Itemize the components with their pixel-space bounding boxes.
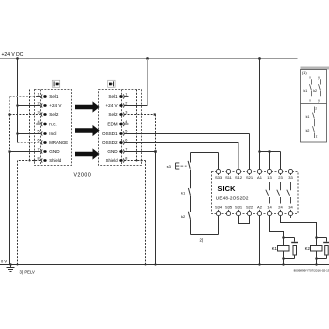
relay contact 13-14 — [266, 182, 270, 204]
arrow 2 — [75, 125, 100, 136]
wire 24 to K2 — [281, 216, 317, 238]
wire X2 pin2 riser gray — [147, 59, 149, 106]
junction rail-X1 — [16, 57, 19, 60]
legend header bar — [301, 67, 329, 70]
legend contact k1 NO — [304, 76, 312, 103]
wire OSSD2 riser gray — [238, 143, 240, 170]
junction shield screen b — [34, 160, 36, 162]
wire to X1 pin6 dashed gray — [18, 142, 41, 144]
coil K1 — [272, 238, 289, 259]
arrow 3 — [75, 148, 100, 159]
wire K1 to 0V — [283, 259, 285, 265]
connector X2 pin 2 +24 V — [105, 102, 127, 109]
junction shield screen a — [29, 160, 31, 162]
svg-text:S31: S31 — [235, 205, 243, 210]
connector X1 pin 6 MRANGE — [37, 139, 68, 146]
svg-text:5: 5 — [125, 130, 127, 134]
connector X1 pin 5 Incl — [37, 130, 56, 137]
wire to X1 pin3 dashed — [10, 114, 41, 116]
junction 0V at x145.5 — [145, 264, 147, 266]
svg-text:K2: K2 — [305, 246, 311, 251]
connector X1 plug icon — [52, 80, 59, 87]
wire reset loop top — [191, 152, 219, 154]
svg-text:OSSD1: OSSD1 — [102, 131, 118, 136]
relay terminal S34 — [215, 205, 223, 216]
wire A1 from rail — [259, 59, 261, 170]
wire Sel2 drop dashed — [155, 115, 157, 152]
relay terminal 34 — [288, 205, 293, 216]
arrow 1 — [75, 101, 100, 112]
wire OSSD1 to S21 — [124, 134, 249, 170]
contact k2 EDM — [181, 212, 191, 235]
junction K2 top — [315, 236, 318, 239]
junction X1 pin2 — [16, 104, 19, 107]
svg-text:5: 5 — [37, 130, 39, 134]
connector X1 pin 7 GND — [37, 148, 60, 155]
wire 0V drop dashed upper gray — [9, 97, 11, 115]
relay terminal 13 — [267, 169, 272, 180]
connector X2 pin 8 Shield — [106, 157, 128, 164]
svg-text:k1: k1 — [304, 89, 308, 93]
wire to X1 pin2 — [18, 105, 41, 107]
wire X1 shield dashed — [18, 161, 41, 265]
svg-text:A2: A2 — [257, 205, 263, 210]
switch s3 reset button — [167, 153, 191, 189]
junction K1 bottom — [282, 257, 285, 260]
connector X2 pin 4 EDM — [107, 120, 128, 127]
svg-text:8: 8 — [125, 157, 127, 161]
connector X2 pin 7 GND — [107, 148, 127, 155]
svg-text:7: 7 — [37, 148, 39, 152]
junction X1 pin7 — [8, 150, 10, 152]
svg-text:SICK: SICK — [218, 184, 237, 193]
wire to X1 pin5 — [18, 133, 41, 135]
connector X1 pin column dashed — [40, 90, 42, 166]
connector X1 pin 8 Shield — [37, 157, 61, 164]
junction rail-X2 — [146, 57, 149, 60]
legend contact k2 NO — [313, 76, 320, 103]
wire +24V DC rail — [0, 58, 298, 60]
svg-text:+24 V DC: +24 V DC — [2, 52, 24, 58]
junction A1 feed — [258, 150, 261, 153]
svg-text:4: 4 — [37, 120, 39, 124]
svg-text:k2: k2 — [306, 129, 310, 133]
relay contact 33-34 — [287, 182, 291, 204]
junction X1 pin5 — [16, 132, 19, 135]
wire S33 riser — [218, 153, 220, 170]
svg-text:13: 13 — [267, 175, 272, 180]
wire X2 Sel2 dashed — [124, 114, 155, 116]
relay terminal S11 — [225, 169, 233, 180]
legend box — [301, 70, 327, 143]
relay contact 23-24 — [277, 182, 281, 204]
junction 0V at x17.5 — [17, 264, 19, 266]
connector X1 pin 2 +24 V — [37, 102, 62, 109]
svg-text:Sel2: Sel2 — [49, 112, 59, 117]
junction 13 feed — [268, 150, 271, 153]
suppressor K1 — [284, 238, 299, 259]
relay terminal S22 — [246, 205, 254, 216]
svg-text:S21: S21 — [246, 175, 254, 180]
junction 0V at x316.5 — [315, 263, 317, 265]
junction K1 top — [282, 236, 285, 239]
wire reset loop bottom — [191, 216, 219, 235]
connector X2 cable screen dashed — [136, 90, 138, 161]
connector X1 pin 4 n.c. — [36, 120, 57, 127]
relay terminal S35 — [225, 205, 233, 216]
svg-text:GND: GND — [49, 149, 60, 154]
junction X1 pin3 — [8, 113, 11, 116]
connector X2 plug icon — [108, 80, 115, 87]
relay terminal A2 — [257, 205, 263, 216]
junction 0V at x259.5 — [258, 263, 260, 265]
svg-text:S33: S33 — [215, 175, 223, 180]
junction K2 bottom — [315, 257, 318, 260]
svg-text:8: 8 — [37, 157, 39, 161]
svg-text:2: 2 — [37, 102, 39, 106]
svg-text:3: 3 — [37, 111, 39, 115]
svg-text:S11: S11 — [225, 175, 233, 180]
junction 0V at x155.5 — [154, 263, 156, 265]
junction 0V at x283.5 — [282, 263, 284, 265]
svg-text:EDM: EDM — [107, 122, 117, 127]
svg-text:Shield: Shield — [49, 158, 62, 163]
svg-text:GND: GND — [107, 149, 118, 154]
junction 0V at x10.5 — [9, 263, 11, 265]
relay terminal S31 — [235, 205, 243, 216]
wire A2 to 0V — [259, 216, 261, 265]
wire 14 to K1 — [270, 216, 284, 238]
wire X2 pin2 to corner — [124, 105, 147, 107]
svg-text:S12: S12 — [235, 175, 243, 180]
svg-text:MRANGE: MRANGE — [49, 140, 68, 145]
connector X2 pin 5 OSSD1 — [102, 130, 127, 137]
wire to X1 pin7 — [10, 151, 41, 153]
svg-text:3: 3 — [125, 111, 127, 115]
wire +24V drop to X1 — [17, 59, 19, 143]
svg-text:Incl: Incl — [49, 131, 56, 136]
svg-text:Sel2: Sel2 — [108, 112, 118, 117]
connector X2 pin 6 OSSD2 — [102, 139, 127, 146]
svg-text:34: 34 — [288, 205, 293, 210]
connector X2 pin column dashed — [121, 90, 123, 166]
relay terminal 14 — [267, 205, 272, 216]
wire X2 GND to 0V — [124, 152, 155, 265]
connector X1 pin 3 Sel2 — [37, 111, 58, 118]
svg-text:(1): (1) — [302, 71, 307, 75]
wire OSSD2 to S12 — [124, 142, 238, 144]
svg-text:S22: S22 — [246, 205, 254, 210]
connector X2 pin 1 Sel1 — [108, 93, 128, 100]
junction rail-A1 — [258, 57, 261, 60]
ground symbol — [7, 265, 15, 272]
legend series k1 k2 contacts — [306, 106, 318, 138]
svg-text:Shield: Shield — [106, 158, 119, 163]
junction Sel2-GND — [154, 150, 156, 152]
svg-text:K1: K1 — [272, 246, 278, 251]
svg-text:k1: k1 — [306, 115, 310, 119]
wire X2 shield dashed — [124, 161, 145, 265]
relay terminal 23 — [278, 169, 283, 180]
svg-text:S35: S35 — [225, 205, 233, 210]
relay terminal A1 — [257, 169, 263, 180]
svg-text:2): 2) — [200, 238, 204, 243]
stub 34 — [290, 216, 292, 218]
svg-text:24: 24 — [278, 205, 283, 210]
relay terminal S21 — [246, 169, 254, 180]
svg-text:33: 33 — [288, 175, 293, 180]
svg-text:2: 2 — [125, 102, 127, 106]
relay terminal S33 — [215, 169, 223, 180]
svg-text:1: 1 — [125, 93, 127, 97]
svg-text:0 V: 0 V — [1, 258, 7, 263]
svg-text:S34: S34 — [215, 205, 223, 210]
junction shield screen c — [136, 160, 138, 162]
legend divider — [301, 103, 327, 105]
terminator Sel2 — [154, 113, 156, 115]
svg-text:14: 14 — [267, 205, 272, 210]
suppressor K2 — [317, 238, 329, 259]
svg-text:23: 23 — [278, 175, 283, 180]
svg-text:+24 V: +24 V — [105, 103, 118, 108]
jumper S31-S22 — [239, 216, 250, 224]
svg-text:7: 7 — [125, 148, 127, 152]
svg-text:4: 4 — [125, 120, 127, 124]
svg-text:UE48-2OS2D2: UE48-2OS2D2 — [216, 196, 249, 201]
svg-text:n.c.: n.c. — [49, 122, 56, 127]
relay terminal 33 — [288, 169, 293, 180]
svg-text:OSSD2: OSSD2 — [102, 140, 118, 145]
wire 0V rail — [0, 264, 329, 266]
connector X2 pin 3 Sel2 — [108, 111, 127, 118]
svg-text:3) PELV: 3) PELV — [20, 269, 35, 274]
relay UE48-2OS box — [212, 172, 299, 214]
wire K2 to 0V — [316, 259, 318, 265]
svg-text:+24 V: +24 V — [49, 103, 62, 108]
coil K2 — [305, 238, 322, 259]
svg-text:6: 6 — [37, 139, 39, 143]
svg-text:A1: A1 — [257, 175, 263, 180]
connector X1 cable screen dashed — [29, 90, 31, 161]
relay terminal S12 — [235, 169, 243, 180]
svg-text:Sel1: Sel1 — [108, 94, 118, 99]
connector X2 box — [99, 90, 142, 166]
junction shield screen d — [141, 160, 143, 162]
svg-text:k2: k2 — [313, 89, 317, 93]
wire to X1 pin1 dashed gray — [10, 96, 41, 98]
wire 13 23 feed — [260, 152, 281, 170]
connector X1 pin 1 Sel1 — [36, 93, 59, 100]
svg-text:V2000: V2000 — [74, 173, 92, 179]
relay terminal 24 — [278, 205, 283, 216]
contact k1 EDM — [181, 188, 191, 212]
svg-text:Sel1: Sel1 — [49, 94, 59, 99]
svg-text:6: 6 — [125, 139, 127, 143]
connector X1 box — [35, 90, 72, 166]
wire 0V drop solid lower — [9, 152, 11, 265]
svg-text:8009899/YT07/2016-02-19: 8009899/YT07/2016-02-19 — [294, 269, 329, 273]
wire 0V drop dashed mid — [9, 115, 11, 152]
svg-text:1: 1 — [37, 93, 39, 97]
